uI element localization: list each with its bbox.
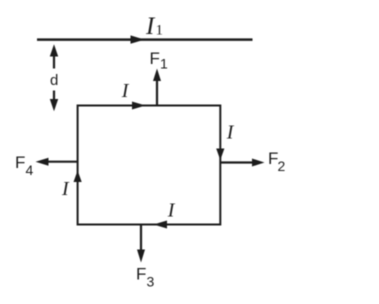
svg-text:I: I <box>61 178 70 200</box>
svg-text:F: F <box>136 265 146 284</box>
svg-text:I: I <box>167 200 176 222</box>
svg-text:4: 4 <box>26 162 34 178</box>
svg-text:I: I <box>226 122 235 144</box>
force arrow F3 head <box>137 250 145 263</box>
svg-text:2: 2 <box>278 158 286 174</box>
force arrow F2 shaft <box>220 161 253 163</box>
dimension arrow d upper shaft <box>53 55 55 69</box>
dimension arrow d lower shaft <box>53 91 55 102</box>
svg-text:d: d <box>50 72 58 89</box>
current arrow right side (down) <box>216 149 224 161</box>
svg-text:I: I <box>121 80 130 102</box>
force arrow F1 shaft <box>156 80 158 106</box>
svg-text:F: F <box>15 153 25 172</box>
current arrow on wire I1 <box>131 35 145 43</box>
current arrow left side (up) <box>74 171 82 183</box>
force arrow F1 head <box>153 69 161 82</box>
dimension arrow d (up head) <box>50 44 58 56</box>
force arrow F3 shaft <box>140 225 142 251</box>
force arrow F2 head <box>252 159 265 167</box>
svg-text:1: 1 <box>160 56 168 72</box>
wire (straight conductor carrying I1) <box>37 38 253 41</box>
svg-text:1: 1 <box>156 23 164 39</box>
svg-text:F: F <box>150 49 160 68</box>
svg-text:3: 3 <box>147 274 155 290</box>
force arrow F4 head <box>36 158 49 166</box>
current arrow bottom side (left) <box>154 221 168 229</box>
force arrow F4 shaft <box>48 161 78 163</box>
loop rectangle <box>78 106 221 225</box>
current arrow top side (right) <box>132 102 146 110</box>
dimension arrow d (down head) <box>50 99 58 111</box>
